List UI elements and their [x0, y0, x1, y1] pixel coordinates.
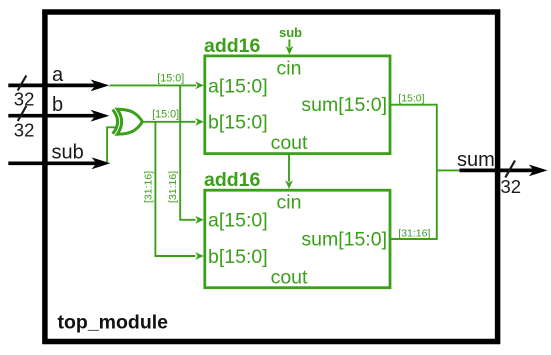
wire xor output to add16 b[15:0]	[142, 118, 204, 126]
wire input a	[8, 80, 109, 92]
svg-text:cout: cout	[271, 132, 308, 154]
svg-text:add16: add16	[204, 169, 261, 191]
wire input b	[8, 110, 109, 122]
svg-text:[15:0]: [15:0]	[152, 108, 179, 120]
module border top_module	[45, 12, 498, 342]
svg-text:a[15:0]: a[15:0]	[208, 76, 268, 98]
svg-text:sum[15:0]: sum[15:0]	[301, 229, 387, 251]
wire a to add16 a[15:0]	[110, 82, 204, 90]
svg-text:cout: cout	[271, 266, 308, 288]
wire input sub	[8, 157, 110, 169]
svg-text:[31:16]: [31:16]	[142, 171, 154, 203]
wire sub to cin1	[286, 40, 294, 55]
svg-text:sum[15:0]: sum[15:0]	[301, 94, 387, 116]
wire sub to xor	[107, 127, 115, 162]
svg-text:[15:0]: [15:0]	[398, 93, 424, 105]
wire a[31:16] down to add16_2 a	[180, 85, 204, 223]
svg-text:32: 32	[14, 120, 35, 141]
add16 block 2	[205, 190, 390, 288]
xor gate	[113, 109, 143, 134]
svg-text:b[15:0]: b[15:0]	[208, 112, 268, 134]
svg-text:sub: sub	[52, 142, 84, 164]
bus slash b	[18, 106, 27, 121]
svg-text:[31:16]: [31:16]	[398, 227, 430, 239]
svg-text:cin: cin	[277, 57, 302, 79]
bus slash sum	[505, 161, 515, 178]
svg-text:b[15:0]: b[15:0]	[208, 246, 268, 268]
svg-text:cin: cin	[277, 192, 302, 214]
svg-text:top_module: top_module	[58, 312, 169, 334]
wire xor[31:16] down to add16_2 b	[155, 122, 203, 260]
wire output sum (black)	[460, 165, 548, 177]
svg-text:[31:16]: [31:16]	[167, 171, 179, 203]
svg-text:b: b	[52, 94, 63, 116]
wire sum join vertical	[436, 104, 438, 240]
bus slash a	[18, 76, 27, 91]
svg-text:a[15:0]: a[15:0]	[208, 210, 268, 232]
wire sum1 [15:0]	[391, 104, 437, 106]
wire sum2 [31:16]	[391, 238, 437, 240]
wire cout1 to cin2	[285, 155, 293, 189]
svg-text:sum: sum	[457, 149, 495, 171]
svg-text:[15:0]: [15:0]	[157, 73, 184, 85]
svg-text:a: a	[52, 64, 64, 86]
svg-text:32: 32	[501, 176, 522, 197]
svg-text:add16: add16	[204, 35, 261, 57]
svg-text:sub: sub	[279, 25, 302, 40]
add16 block 1	[205, 56, 390, 154]
wire sum out (green)	[437, 169, 461, 171]
svg-text:32: 32	[14, 89, 35, 110]
